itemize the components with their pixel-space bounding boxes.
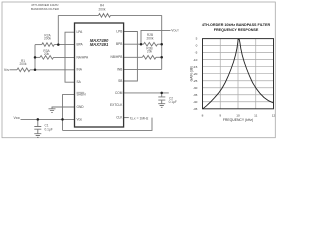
label C1	[45, 124, 53, 132]
x-axis labels	[202, 114, 276, 118]
wire R3B row right	[156, 56, 162, 58]
node R2B-rail junction	[160, 43, 163, 46]
svg-text:0: 0	[196, 44, 198, 48]
node VDD-SHDN junction	[61, 118, 64, 121]
node BPA junction	[57, 43, 60, 46]
svg-text:BANDPASS FILTER: BANDPASS FILTER	[31, 7, 60, 11]
svg-text:BPB: BPB	[116, 42, 122, 46]
wire BPA row left	[35, 44, 42, 46]
svg-text:-15: -15	[193, 65, 198, 69]
svg-text:0.1µF: 0.1µF	[169, 100, 177, 104]
wire R3B row left	[124, 56, 143, 58]
wire R3A row left	[35, 56, 40, 58]
resistor R4	[99, 14, 111, 18]
graph curve	[203, 39, 273, 109]
svg-text:8: 8	[202, 114, 204, 118]
svg-text:200k: 200k	[44, 37, 51, 41]
border frame	[2, 2, 275, 138]
svg-text:COM: COM	[115, 91, 123, 95]
resistor R3B	[142, 56, 156, 60]
node BPB junction	[140, 43, 143, 46]
wire R3A row right	[54, 56, 75, 58]
label C2	[169, 96, 177, 104]
svg-text:-30: -30	[193, 86, 198, 90]
graph title	[202, 23, 271, 32]
wire CLK stub	[124, 117, 129, 119]
svg-text:200k: 200k	[147, 37, 154, 41]
svg-text:11: 11	[254, 114, 257, 118]
wire BPB row	[124, 43, 162, 45]
svg-text:fCLK = 1MHz: fCLK = 1MHz	[130, 116, 149, 120]
svg-text:EXTCLK: EXTCLK	[110, 103, 123, 107]
svg-text:-45: -45	[193, 107, 198, 111]
resistor R3A	[40, 56, 53, 60]
svg-text:VDD: VDD	[77, 117, 83, 121]
node INA junction	[34, 69, 37, 72]
svg-text:CLK: CLK	[116, 116, 123, 120]
wire VDD row	[21, 118, 75, 120]
svg-text:NB/HPB: NB/HPB	[111, 55, 123, 59]
graph gridlines	[203, 39, 274, 109]
svg-text:5: 5	[196, 37, 198, 41]
wire left rail	[34, 45, 36, 70]
svg-text:0.1µF: 0.1µF	[45, 128, 53, 132]
SHDN overline	[77, 91, 85, 93]
svg-text:VOUT: VOUT	[171, 29, 179, 33]
filter IC U1 MAX7490/MAX7491	[75, 23, 124, 127]
resistor R2A	[42, 43, 54, 47]
svg-text:200k: 200k	[99, 8, 106, 12]
svg-text:-35: -35	[193, 93, 198, 97]
capacitor C2	[158, 93, 165, 104]
wire BPB up to VOUT	[141, 30, 171, 44]
wire SHDN tie down	[63, 95, 75, 131]
wire INB row	[124, 68, 162, 70]
ground at GND pin	[49, 109, 56, 113]
svg-text:20k: 20k	[147, 50, 153, 54]
wire R1 to INA	[30, 69, 75, 71]
svg-text:SHDN: SHDN	[77, 93, 87, 97]
svg-text:INB: INB	[117, 67, 122, 71]
node R3B-rail junction	[160, 56, 163, 59]
svg-text:4TH-ORDER 10kHz BANDPASS FILTE: 4TH-ORDER 10kHz BANDPASS FILTER	[202, 23, 271, 27]
wire right rail	[161, 15, 163, 69]
svg-text:FREQUENCY (kHz): FREQUENCY (kHz)	[223, 118, 253, 122]
svg-text:LPB: LPB	[116, 29, 122, 33]
node COM junction	[160, 92, 163, 95]
resistor R1	[17, 68, 30, 72]
svg-text:FREQUENCY RESPONSE: FREQUENCY RESPONSE	[214, 28, 259, 32]
svg-text:12: 12	[272, 114, 276, 118]
svg-text:GAIN (dB): GAIN (dB)	[189, 66, 193, 81]
ground below C1	[34, 134, 41, 138]
wire COM row	[124, 92, 169, 94]
node VDD-C1 junction	[37, 118, 40, 121]
graph frame	[203, 39, 274, 109]
wire GND row	[52, 107, 75, 109]
wire top feedback left	[58, 14, 98, 16]
svg-text:200k: 200k	[20, 62, 27, 66]
svg-text:-10: -10	[193, 58, 198, 62]
ground below C2	[158, 104, 165, 108]
svg-text:INA: INA	[77, 68, 83, 72]
wire LPA-SA tie	[65, 32, 75, 82]
capacitor C1	[34, 119, 41, 133]
svg-text:20k: 20k	[44, 52, 50, 56]
resistor R2B	[144, 42, 158, 46]
svg-text:VIN: VIN	[4, 68, 9, 72]
svg-text:SB: SB	[118, 79, 122, 83]
svg-text:-20: -20	[193, 72, 198, 76]
svg-text:BPA: BPA	[77, 43, 84, 47]
wire bottom tie	[63, 118, 153, 131]
wire feedback vertical	[57, 15, 59, 44]
svg-text:GND: GND	[77, 105, 85, 109]
svg-text:VDD: VDD	[14, 116, 20, 120]
svg-text:9: 9	[219, 114, 221, 118]
svg-text:LPA: LPA	[77, 30, 84, 34]
svg-text:-5: -5	[195, 51, 198, 55]
svg-text:MAX7491: MAX7491	[90, 42, 109, 47]
schematic title	[31, 3, 60, 11]
svg-text:-40: -40	[193, 100, 198, 104]
svg-text:-25: -25	[193, 79, 198, 83]
wire top feedback right	[111, 14, 162, 16]
wire LPB-SB tie	[124, 32, 138, 82]
y-axis labels	[193, 37, 198, 111]
wire VIN lead	[10, 69, 18, 71]
wire BPA row right	[54, 44, 74, 46]
svg-text:SA: SA	[77, 80, 82, 84]
svg-text:NA/HPA: NA/HPA	[77, 55, 90, 59]
node NA/HPA junction	[34, 56, 37, 59]
